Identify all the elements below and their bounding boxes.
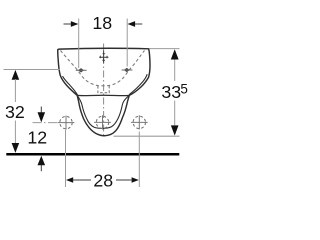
waist line (bowl underside crease) [77,94,129,96]
floor line (black) [6,153,179,156]
dim 18: left arrow [64,23,73,25]
drain hole hidden rectangle (dashed) [98,86,109,93]
dim 28: right arrow [132,177,139,182]
dim 28: left extension line [65,130,67,187]
fixing hole right: crosshair circle [131,115,148,129]
dim 32: dimension line lower segment [14,121,16,145]
ceramic body outer silhouette [58,48,150,135]
fixing point marker right [124,68,130,72]
fixing point marker left [78,68,84,72]
dim 33.5: down arrow [171,125,179,135]
bowl opening hidden outline (dashed arc) [61,51,145,86]
dim 12: down arrow to hole axis [40,107,42,114]
dim 33.5: top extension line [150,48,180,50]
dim 28: right extension line [138,132,140,188]
fixing holes centerline (dash-dot, through circles) [33,122,59,124]
dim 12: up arrow below floor [38,156,46,166]
dim 18: left extension line [78,19,80,69]
svg-text:5: 5 [180,81,188,96]
svg-text:12: 12 [27,128,47,148]
fixing hole left: crosshair circle [58,116,75,130]
dim 28: left arrow [66,177,73,182]
dim 18: right arrow [134,23,142,25]
centerline of bidet (vertical dash-dot) [103,44,105,136]
dim 32: extension line at rim underside [4,69,61,71]
ceramic inner lip line right [129,74,147,95]
dim 33.5: dimension line upper segment [174,59,176,82]
svg-text:28: 28 [93,170,113,190]
svg-text:18: 18 [92,13,112,33]
dim 32: up arrow [12,70,20,80]
ceramic inner contour lower (pedestal inner line) [78,96,129,128]
dim 33.5: up arrow [171,49,179,59]
svg-text:32: 32 [5,102,25,122]
bottom reference line (ceramic underside level, gray) [114,135,180,137]
dim 32: down arrow [12,143,20,153]
fixing hole middle: crosshair circle [94,115,111,129]
tap hole marker: cross [99,51,108,63]
dim 32: dimension line upper segment [14,79,16,102]
dim 33.5: dimension line lower segment [174,101,176,126]
dim 18: right extension line [126,19,128,67]
ceramic inner lip line left [63,76,78,95]
tap hole marker: dashed circle [100,54,107,61]
svg-text:33: 33 [161,82,181,102]
